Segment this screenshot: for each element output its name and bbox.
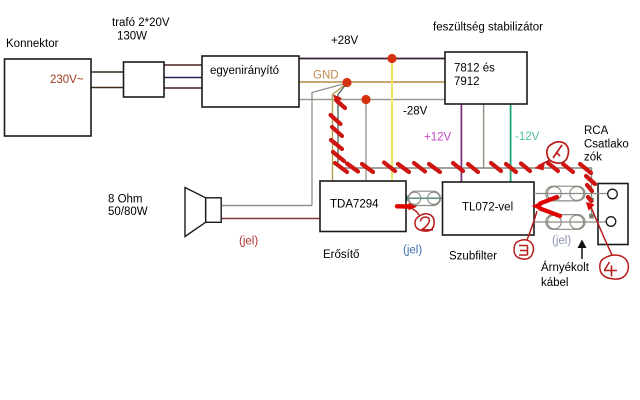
junction shield-top cable	[589, 198, 594, 203]
annotation leader 2	[411, 208, 419, 215]
RCA jack bottom	[606, 217, 616, 227]
junction shield-bottom cable	[589, 214, 594, 219]
speaker LS1 magnet	[206, 198, 222, 223]
svg-text:RCA: RCA	[584, 125, 609, 137]
wire mains from Konnektor to transformer (upper)	[91, 71, 123, 73]
svg-text:Erősítő: Erősítő	[323, 249, 359, 261]
interconnect cable C1 plug right	[428, 192, 440, 204]
wire signal TDA7294 to TL072 cable (teal)	[404, 197, 443, 199]
RCA cable bottom body	[546, 215, 585, 230]
svg-text:(jel): (jel)	[403, 245, 422, 257]
svg-text:Árnyékolt: Árnyékolt	[541, 261, 590, 274]
pin tick right of interconnect cable	[439, 195, 441, 201]
svg-text:7812 és: 7812 és	[454, 63, 495, 75]
svg-text:TL072-vel: TL072-vel	[462, 202, 513, 214]
annotation arrow 2 head	[409, 203, 418, 210]
svg-text:trafó 2*20V: trafó 2*20V	[112, 17, 170, 29]
wire signal ground rail horizontal	[340, 167, 592, 169]
speaker LS1 cone	[185, 188, 206, 237]
annotation arrow 4 head	[586, 202, 595, 211]
svg-text:7912: 7912	[454, 76, 480, 88]
wire TL072 to RCA bottom	[534, 221, 607, 223]
interconnect cable C1 plug left	[409, 192, 421, 204]
svg-text:(jel): (jel)	[552, 235, 571, 247]
wire transformer secondary 1 to rectifier	[164, 64, 202, 66]
svg-text:130W: 130W	[117, 31, 147, 43]
annotation mark 2 thick dash	[397, 204, 410, 209]
svg-text:(jel): (jel)	[239, 236, 258, 248]
wire yellow +28V drop to TDA7294	[391, 59, 393, 182]
junction node -28V	[361, 95, 370, 104]
annotation arrow 1 head	[535, 162, 546, 171]
annotation red dashed chain vertical (GND trace)	[333, 95, 342, 105]
wire GND branch to speaker return	[312, 83, 347, 206]
svg-text:50/80W: 50/80W	[108, 206, 148, 218]
annotation circle 4	[600, 255, 629, 279]
wire mains from Konnektor to transformer (lower)	[91, 87, 123, 89]
wire +12V drop from stabilizer to TL072	[460, 104, 462, 182]
wire transformer secondary center tap to rectifier	[164, 77, 202, 79]
svg-text:kábel: kábel	[541, 277, 569, 289]
wire GND rail from rectifier to stabilizer	[299, 81, 445, 83]
wire -28V rail from rectifier to stabilizer	[299, 99, 445, 101]
annotation red dashed chain horizontal (signal rail trace)	[347, 163, 573, 173]
wire GND branch to TDA7294	[333, 83, 348, 181]
annotation digit 2	[421, 217, 434, 230]
box amplifier TDA7294	[320, 181, 406, 232]
junction node +28V	[387, 54, 396, 63]
wire TL072 to RCA top	[534, 193, 608, 195]
annotation arrow 3 head	[532, 202, 543, 211]
interconnect cable C1 body (TDA to TL072)	[408, 191, 440, 205]
annotation leader 4	[591, 207, 612, 255]
RCA cable bottom plug left	[547, 215, 561, 229]
wire grey -28V drop to TDA7294	[365, 100, 367, 182]
svg-text:egyenirányító: egyenirányító	[210, 65, 279, 77]
svg-text:zók: zók	[584, 152, 602, 164]
wire GND branch to signal-ground rail	[338, 83, 347, 168]
svg-text:+28V: +28V	[331, 35, 359, 47]
box RCA connectors	[598, 184, 628, 245]
svg-text:8 Ohm: 8 Ohm	[108, 194, 143, 206]
annotation circle 1	[538, 142, 569, 166]
annotation digit 3	[519, 246, 528, 256]
wire shield drop to RCA cables	[591, 168, 593, 216]
wire speaker + (grey)	[221, 205, 312, 207]
svg-text:230V~: 230V~	[50, 74, 84, 86]
box Konnektor	[5, 59, 92, 136]
wire stabilizer ground drop to signal rail	[483, 104, 485, 168]
annotation leader 3	[527, 211, 537, 240]
svg-text:Konnektor: Konnektor	[6, 38, 59, 50]
RCA cable top body	[546, 186, 585, 201]
pin tick left of interconnect cable	[406, 195, 408, 201]
svg-text:-28V: -28V	[403, 106, 428, 118]
RCA cable top plug right	[570, 187, 584, 201]
wire -12V drop from stabilizer to TL072	[510, 104, 512, 182]
annotation digit 1	[553, 145, 562, 158]
annotation red dashed chain diagonal to shield	[580, 164, 595, 201]
box rectifier (egyeniranyito)	[202, 56, 299, 107]
wire speaker - (dark red) to TDA7294	[221, 218, 320, 220]
annotation digit 4	[604, 262, 617, 277]
wire +28V rail from rectifier to stabilizer	[299, 58, 445, 60]
annotation circle 2	[415, 214, 434, 231]
box subfilter TL072	[443, 182, 535, 235]
annotation arrow 3 upper stroke	[540, 197, 557, 204]
svg-text:TDA7294: TDA7294	[330, 199, 379, 211]
svg-text:-12V: -12V	[515, 131, 540, 143]
svg-text:Szubfilter: Szubfilter	[449, 251, 497, 263]
junction node GND	[342, 78, 351, 87]
arrow up (shielded cable pointer)	[581, 245, 583, 259]
RCA cable bottom plug right	[570, 215, 584, 229]
svg-text:Csatlako: Csatlako	[584, 139, 629, 151]
box transformer	[124, 62, 165, 97]
annotation arrow 3 lower stroke	[540, 209, 560, 217]
RCA jack top	[608, 189, 618, 199]
wire transformer secondary 2 to rectifier	[164, 87, 202, 89]
svg-text:GND: GND	[313, 70, 339, 82]
svg-text:feszültség stabilizátor: feszültség stabilizátor	[433, 22, 543, 34]
box voltage stabilizer 7812/7912	[445, 52, 527, 104]
annotation circle 3	[514, 240, 534, 259]
svg-text:+12V: +12V	[424, 132, 452, 144]
RCA cable top plug left	[547, 187, 561, 201]
